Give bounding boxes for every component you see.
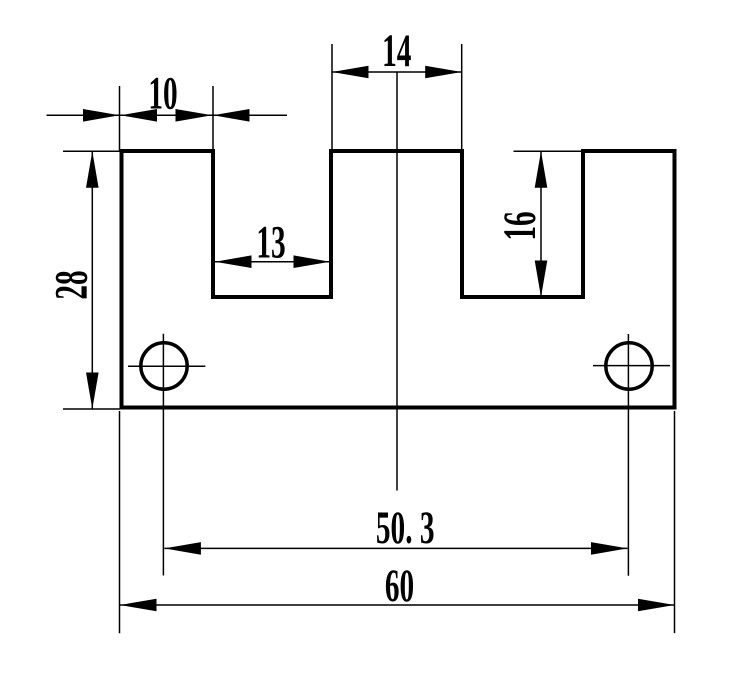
svg-text:10: 10 [148, 68, 177, 119]
dimension 60 extension line left [119, 411, 121, 633]
dimension 10 extension line left [119, 86, 121, 151]
hole left circle [141, 343, 187, 389]
dimension 16 extension line top [514, 150, 584, 152]
dimension 10 arrow outside right [213, 109, 250, 122]
dimension 10 line [47, 114, 288, 116]
svg-text:50. 3: 50. 3 [376, 502, 435, 553]
dimension 60 extension line right [674, 411, 676, 633]
dimension 10 arrow inside right [176, 109, 213, 122]
dimension 14 extension line right [461, 44, 463, 151]
dimension 28 arrow bottom [86, 373, 99, 410]
dimension 13 line [215, 261, 330, 263]
dimension 60 arrow right [638, 599, 675, 612]
part outline [122, 151, 675, 408]
dimension 28 arrow top [86, 151, 99, 188]
dimension 14 extension line left [331, 44, 333, 151]
dimension 14 arrow left [332, 66, 369, 79]
dimension 13 arrow left [215, 255, 252, 268]
dimension 10 extension line right [212, 86, 214, 151]
dimension 10 arrow outside left [83, 109, 120, 122]
dimension 50.3 arrow right [591, 542, 628, 555]
dimension 50.3 arrow left [164, 542, 201, 555]
dimension 60 arrow left [120, 599, 157, 612]
hole right circle [606, 343, 652, 389]
hole left vertical centerline [162, 334, 164, 576]
dimension 28 line [91, 151, 93, 409]
hole right vertical centerline [627, 334, 629, 576]
dimension 16 arrow top [535, 151, 548, 188]
dimension 28 extension line bottom [63, 408, 120, 410]
dimension 16 line [540, 151, 542, 297]
hole left horizontal centerline [128, 365, 205, 367]
svg-text:14: 14 [382, 25, 411, 76]
dimension 16 arrow bottom [535, 261, 548, 298]
dimension 14 arrow right [425, 66, 462, 79]
dimension 10 arrow inside left [121, 109, 158, 122]
svg-text:28: 28 [46, 270, 97, 299]
part vertical centerline [396, 72, 398, 491]
dimension 50.3 line [164, 547, 627, 549]
svg-text:16: 16 [494, 211, 545, 240]
dimension 60 line [120, 604, 675, 606]
svg-text:60: 60 [385, 560, 414, 611]
dimension 14 line [332, 71, 462, 73]
hole right horizontal centerline [593, 365, 670, 367]
dimension 13 arrow right [294, 255, 331, 268]
dimension 28 extension line top [63, 150, 120, 152]
svg-text:13: 13 [256, 217, 285, 268]
